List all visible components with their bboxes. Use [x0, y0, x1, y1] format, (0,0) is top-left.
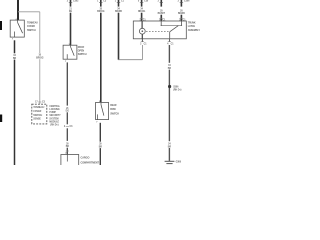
roof open switch box — [63, 45, 77, 59]
wire W7 top stub — [160, 0, 162, 7]
label 34 BR on W9 — [168, 64, 172, 70]
text CENTRAL LOCKING PUMP SECURITY SYSTEM MODULE — [49, 105, 61, 127]
wire W5 top stub — [118, 0, 120, 7]
wire W4 lower upper-seg — [99, 123, 101, 142]
top clipped label W5 — [115, 0, 125, 2]
rear bow switch contact arm — [101, 105, 104, 116]
top clipped label W8 C306 — [178, 0, 190, 2]
text S306 — [173, 86, 181, 91]
mechanical link dashed line — [146, 30, 169, 32]
wire W8 to trunk latch switch — [180, 15, 182, 21]
text TONNEAU COVER SWITCH SENSE — [33, 106, 44, 120]
switch stub from W8 — [181, 21, 183, 25]
connector tick W4 — [99, 1, 102, 3]
left edge tab mark 1 — [0, 21, 2, 30]
splice S306 — [168, 85, 171, 88]
svg-text:BR/OG: BR/OG — [36, 57, 44, 59]
rear bow switch top pin stub — [100, 102, 102, 104]
svg-text:CARGO: CARGO — [81, 157, 90, 160]
svg-text:COVER: COVER — [27, 25, 35, 28]
wire W2 sense drop upper — [39, 12, 41, 53]
label 1 X C1 motor top pin — [139, 19, 146, 21]
wire W5 rise to motor pin — [141, 45, 143, 60]
svg-text:S306: S306 — [173, 86, 179, 88]
svg-text:SWITCH: SWITCH — [33, 115, 42, 117]
text REAR BOW SWITCH — [110, 104, 119, 115]
connector tick cargo — [66, 150, 69, 152]
svg-text:CENTRAL: CENTRAL — [49, 105, 60, 108]
connector tick W5 — [117, 1, 120, 3]
roof switch contact arm — [71, 47, 75, 56]
rear bow switch box — [96, 102, 109, 119]
wire W6 to trunk latch motor — [141, 13, 143, 21]
tonneau switch fixed contact stub — [14, 32, 16, 38]
label 30 BR/OG on W4 — [97, 8, 105, 13]
motor top lead inside box — [141, 21, 143, 28]
label 3 C1 switch pin — [179, 19, 186, 21]
connector 17 C3 — [35, 101, 45, 103]
svg-text:LOCKING: LOCKING — [49, 109, 60, 111]
svg-text:TRUNK: TRUNK — [188, 21, 196, 24]
label 20 BK/WT on W7 — [158, 10, 166, 15]
wire W6 top stub — [141, 0, 143, 7]
trunk latch assembly box — [133, 21, 186, 39]
connector tick switch bottom — [168, 41, 171, 43]
text CARGO COMPARTMENT LAMP — [81, 157, 100, 165]
top clipped label W4 — [97, 0, 107, 2]
tonneau switch contact arm — [18, 22, 23, 33]
tonneau cover switch box — [10, 20, 24, 37]
label 34 BK/RD on W5 — [115, 7, 122, 13]
label 21 DG on W3 lower — [66, 108, 70, 113]
text ROOF OPEN SWITCH — [78, 46, 87, 56]
roof switch fixed contact stub — [66, 54, 68, 59]
wire W3 top stub — [70, 0, 72, 7]
connector tick W6 — [140, 1, 143, 3]
svg-text:COVER: COVER — [33, 111, 41, 113]
wire W9 to splice — [168, 70, 170, 142]
motor bottom pin stub — [141, 39, 143, 42]
wire W4 to rear bow switch — [100, 13, 102, 103]
svg-text:SWITCH: SWITCH — [110, 112, 119, 115]
ground G306 bar 2 — [166, 163, 172, 165]
svg-text:(RH D+): (RH D+) — [50, 125, 58, 127]
switch contact dot W7 — [161, 25, 162, 26]
svg-text:ASSEMBLY: ASSEMBLY — [188, 29, 201, 32]
cargo compartment lamp box — [61, 155, 79, 167]
svg-text:BOW: BOW — [110, 108, 116, 111]
svg-text:LATCH: LATCH — [188, 25, 196, 28]
svg-text:TONNEAU: TONNEAU — [27, 21, 38, 24]
label 20 BK/RD on W8 — [178, 10, 185, 15]
svg-text:BR: BR — [13, 58, 17, 60]
wire W5 down — [118, 13, 120, 60]
svg-text:G306: G306 — [176, 162, 182, 164]
wire W4 lower to bottom edge — [99, 148, 101, 165]
wire W3 below connector — [66, 128, 68, 141]
connector tick W3 — [69, 1, 72, 3]
top clipped label W6 — [138, 0, 149, 2]
switch arm trunk latch — [170, 26, 179, 32]
connector 2 C3 — [64, 126, 73, 128]
svg-text:MODULE: MODULE — [49, 121, 59, 123]
switch bottom pin stub — [169, 39, 171, 42]
label 30 BR on W3 bottom — [66, 143, 70, 148]
label 34 BR on W1 — [13, 54, 17, 60]
connector tick W8 — [180, 1, 183, 3]
svg-text:COMPARTMENT: COMPARTMENT — [81, 161, 100, 164]
svg-text:C302: C302 — [73, 0, 79, 2]
svg-text:TONNEAU: TONNEAU — [33, 106, 44, 109]
connector tick motor bottom — [141, 41, 144, 43]
wire branch to module sense (horizontal) — [18, 11, 40, 13]
connector tick W7 — [160, 1, 163, 3]
wire W1 feed from top — [17, 0, 19, 20]
switch blade closed — [161, 24, 181, 26]
top clipped label W7 — [158, 0, 160, 2]
wire W9 to ground — [168, 148, 170, 161]
text TONNEAU COVER SWITCH — [27, 21, 38, 32]
label 4 C1 switch bottom pin — [167, 42, 174, 45]
svg-text:SENSE: SENSE — [33, 118, 41, 120]
wire W7 to trunk latch switch — [160, 15, 162, 21]
svg-text:SYSTEM: SYSTEM — [49, 118, 58, 120]
rear bow switch fixed contact stub — [97, 114, 99, 119]
wire W1 lower to bottom edge — [14, 60, 16, 165]
wire W9 ground run upper — [168, 45, 170, 63]
connector tick motor top — [140, 17, 143, 19]
cargo lamp internal stub — [66, 155, 68, 162]
switch stub from W7 — [160, 21, 162, 25]
left edge tab mark 2 — [0, 115, 2, 123]
wire W5 horizontal run — [118, 59, 142, 61]
svg-text:SWITCH: SWITCH — [27, 29, 36, 32]
motor circle inner dot — [142, 30, 144, 32]
svg-text:SWITCH: SWITCH — [78, 53, 87, 56]
wire W4 top stub — [100, 0, 102, 7]
module dashed box — [32, 104, 47, 124]
roof switch top pin stub — [69, 45, 71, 47]
label 2 Y C1 motor bottom pin — [140, 43, 147, 45]
text TRUNK LATCH ASSEMBLY — [188, 21, 201, 32]
switch contact dot W8 — [181, 25, 182, 26]
wire W3 lower upper-seg — [66, 62, 68, 105]
wire W1 lower upper-seg — [14, 40, 16, 53]
connector tick W7 pin — [160, 17, 163, 19]
ground G306 bar 1 — [165, 160, 175, 162]
switch pivot drop to box bottom — [169, 32, 171, 39]
wire W3 into cargo lamp — [66, 148, 68, 155]
label 21 DG on W3 — [69, 8, 73, 13]
connector tick W8 pin — [180, 17, 183, 19]
svg-text:PUMP: PUMP — [49, 112, 56, 114]
wire W2 sense drop lower — [39, 59, 41, 104]
label 34 RD/OG on W6 — [138, 7, 146, 13]
svg-text:REAR: REAR — [110, 104, 117, 107]
svg-text:(RH D+): (RH D+) — [173, 90, 181, 92]
label 24 BR on W9 lower — [168, 143, 172, 149]
svg-text:SECURITY: SECURITY — [49, 115, 61, 117]
top clipped label W3 — [67, 0, 79, 2]
motor bottom lead inside box — [141, 34, 143, 39]
trunk latch motor circle — [139, 28, 145, 34]
svg-text:C306: C306 — [184, 0, 190, 2]
wire W8 top stub — [180, 0, 182, 7]
wire W3 to roof open switch — [70, 13, 72, 46]
wire W3 lower mid-seg — [66, 112, 68, 124]
label 30 BR/OG on W2 — [36, 55, 44, 60]
label 5 C1 switch pin — [159, 19, 166, 21]
label 30 BR on W4 lower — [99, 144, 103, 149]
tonneau switch top pin stub — [17, 20, 19, 22]
